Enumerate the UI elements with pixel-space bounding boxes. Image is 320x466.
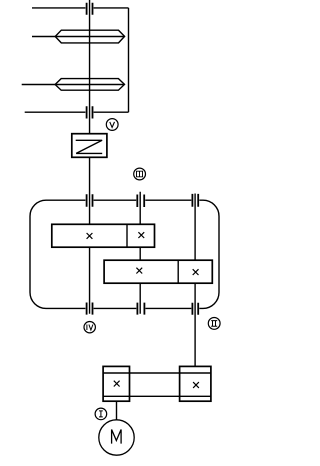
shaft III (vertical) <box>139 192 141 314</box>
shaft V (spindle shaft, vertical) <box>89 0 91 314</box>
bearing shaft II at gearbox top <box>192 194 198 207</box>
motor M1 (electric motor circle) <box>99 420 134 455</box>
belt band (two lines) <box>103 373 211 396</box>
divider of gear block B2 <box>177 260 179 283</box>
node label I (circled) <box>95 408 107 420</box>
wire lower support line y=112 <box>25 111 129 113</box>
roller package P1 (pointed hexagon) <box>55 30 124 43</box>
node label II (circled) <box>208 318 220 330</box>
gearbox housing (rounded frame, interrupted at bearings) <box>30 200 219 308</box>
gear block B2 (sliding gear block on shafts III/II) <box>104 260 212 283</box>
frame line right vertical <box>128 8 130 112</box>
shaft II (vertical) <box>194 194 196 367</box>
x mark fixed joint B1 right <box>138 232 144 238</box>
pulley D2 (on shaft II) <box>180 366 211 401</box>
shaft I (motor shaft) <box>116 401 118 420</box>
x mark fixed joint B1 left <box>87 233 93 239</box>
roller package P2 (pointed hexagon) <box>55 79 124 91</box>
divider of gear block B1 <box>126 224 128 247</box>
bearing shaft V at gearbox bottom <box>87 303 93 315</box>
x mark fixed joint B2 left <box>136 268 142 274</box>
variator Z symbol <box>76 140 103 153</box>
bearing on shaft V at lower support line <box>87 106 93 118</box>
wire top support line y=8 <box>32 7 129 9</box>
bearing on shaft V at top line <box>87 3 93 15</box>
node label IV (circled) <box>84 322 95 333</box>
node label III (circled) <box>134 168 146 180</box>
bearing shaft II at gearbox bottom <box>192 303 198 315</box>
gear block B1 (sliding gear block on shafts V/III) <box>52 224 155 247</box>
bearing shaft III at gearbox bottom <box>137 303 144 315</box>
x mark fixed joint pulley D2 <box>193 382 199 388</box>
x mark fixed joint pulley D1 <box>114 381 120 387</box>
x mark fixed joint B2 right <box>193 269 199 275</box>
variator U1 (speed variator box) <box>72 134 107 158</box>
node axis line of P1 <box>32 36 125 38</box>
bearing shaft III at gearbox top <box>137 195 144 208</box>
node label V (circled) <box>106 119 118 131</box>
node axis line of P2 <box>22 84 125 86</box>
pulley D1 (on motor shaft) <box>103 366 129 401</box>
bearing on shaft V at gearbox top <box>87 194 93 206</box>
motor letter M <box>112 430 122 444</box>
